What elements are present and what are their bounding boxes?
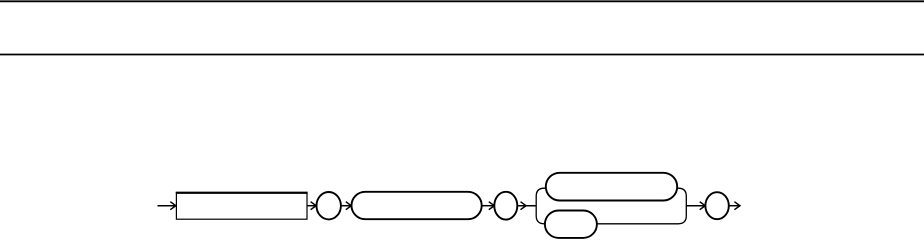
start arrowhead: [170, 202, 176, 210]
wire: branch join to circle T3: [686, 205, 705, 207]
wire: circle T1 to capsule K1: [341, 205, 352, 207]
terminal capsule K1: [352, 192, 482, 219]
terminal circle T3: [705, 192, 728, 219]
wire: start entry line: [158, 205, 177, 207]
second header rule: [0, 54, 924, 56]
terminal capsule K3 (bottom branch): [545, 211, 597, 238]
wire: capsule K1 to circle T2: [482, 205, 495, 207]
wire: exit line: [729, 205, 740, 207]
terminal circle T2: [494, 192, 517, 220]
terminal circle T1: [317, 192, 341, 219]
arrowhead on branch entry wire: [521, 202, 527, 210]
wire: box B1 to circle T1: [307, 205, 316, 207]
arrowhead into circle T2: [489, 202, 495, 210]
terminal capsule K2 (top branch): [546, 173, 677, 201]
top header rule: [0, 0, 924, 2]
branch rail loop (alternative paths container): [536, 188, 686, 224]
arrowhead into circle T1: [311, 202, 317, 210]
wire: circle T2 to branch split: [517, 205, 536, 207]
exit arrowhead: [734, 202, 740, 210]
arrowhead into capsule K1: [346, 202, 352, 210]
arrowhead into circle T3: [700, 202, 706, 210]
non-terminal box B1: [176, 192, 308, 219]
